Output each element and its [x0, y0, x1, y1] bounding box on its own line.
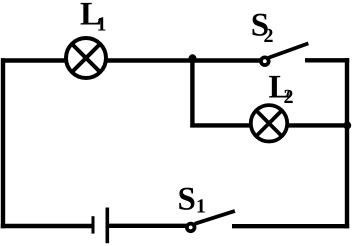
- svg-text:S1: S1: [178, 182, 206, 218]
- svg-text:L1: L1: [80, 0, 107, 36]
- node A (junction dot, top): [189, 54, 197, 62]
- wire: bottom horizontal middle segment (battery to S1): [107, 224, 191, 228]
- wire: top horizontal right segment (S2 to top-right corner): [305, 58, 349, 62]
- switch S1 pivot: [187, 224, 195, 232]
- wire: bottom horizontal left segment (corner to battery): [1, 224, 93, 228]
- node B (junction dot, right side): [343, 122, 351, 130]
- wire: top horizontal (left segment through L1 to S2): [1, 58, 262, 62]
- switch S2 pivot: [261, 57, 269, 65]
- wire: bottom horizontal right segment (S1 to bottom-right corner): [232, 224, 349, 228]
- svg-text:S2: S2: [251, 8, 274, 48]
- lamp L1: [66, 38, 106, 78]
- wire: left vertical side: [1, 58, 5, 228]
- battery cell: short plate (negative): [92, 216, 95, 233]
- switch S1 lever: [195, 211, 235, 224]
- switch S2 lever: [268, 43, 308, 58]
- wire: vertical drop from junction A to L2 branch: [190, 58, 194, 128]
- wire: L2 branch horizontal: [190, 123, 347, 127]
- lamp L2: [251, 105, 287, 141]
- svg-text:L2: L2: [269, 70, 294, 109]
- wire: right vertical side: [345, 58, 349, 228]
- battery cell: long plate (positive): [106, 208, 110, 244]
